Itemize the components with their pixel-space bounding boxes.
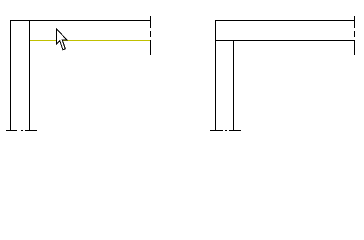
left figure: outer top wire (horizontal): [10, 20, 151, 21]
left figure: bottom dash 1: [6, 130, 17, 131]
mouse cursor: [56, 29, 67, 50]
right figure: bottom dash 2: [229, 130, 241, 131]
left figure: right end tick (dash crossing yellow wire): [150, 40, 151, 55]
right figure: bottom dash 1: [210, 130, 223, 131]
left figure: right end tick (dash crossing top wire): [150, 16, 151, 28]
right figure: right end tick (dash crossing inner wire): [354, 40, 355, 55]
right figure: outer top wire (horizontal): [215, 20, 355, 21]
left figure: right end dot (dash-dot segment): [150, 31, 151, 37]
left figure: yellow rubber-band wire (horizontal): [30, 40, 150, 41]
left figure: outer left wire (vertical): [10, 20, 11, 131]
left figure: inner left wire (vertical): [29, 20, 30, 131]
left figure: bottom dash 2: [25, 130, 37, 131]
right figure: inner left wire (vertical): [233, 40, 234, 131]
right figure: bottom dot: [225, 130, 227, 131]
right figure: right end tick (dash crossing top wire): [354, 16, 355, 28]
right figure: right end dot (dash-dot segment): [354, 31, 355, 37]
right figure: outer left wire (vertical): [215, 20, 216, 131]
left figure: bottom dot: [21, 130, 23, 131]
right figure: inner top wire (horizontal): [215, 40, 355, 41]
